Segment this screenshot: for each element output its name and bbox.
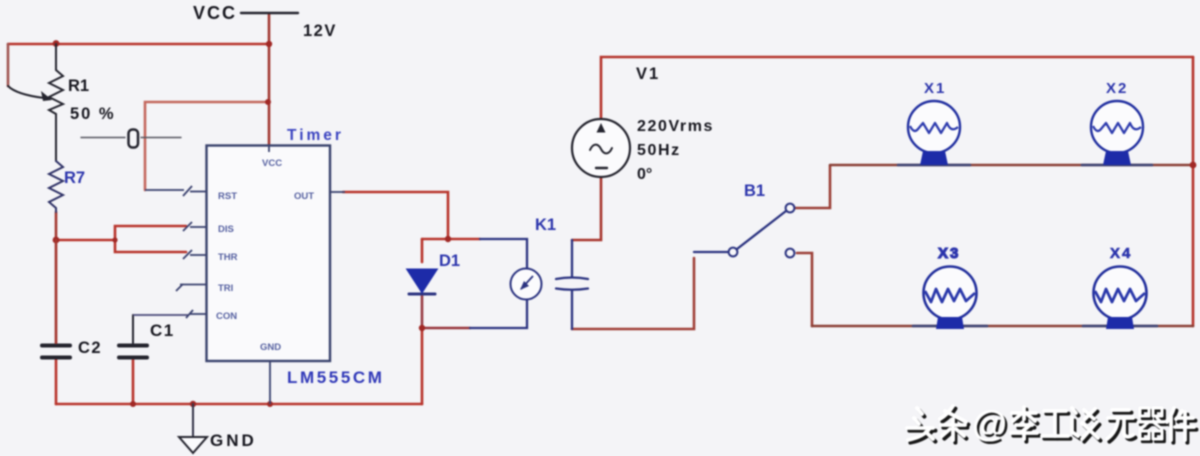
svg-text:CON: CON	[216, 311, 237, 322]
svg-text:VCC: VCC	[262, 158, 282, 169]
svg-text:X3: X3	[938, 245, 960, 262]
svg-text:TRI: TRI	[218, 283, 233, 294]
svg-text:DIS: DIS	[218, 224, 234, 235]
svg-text:B1: B1	[744, 182, 765, 200]
svg-text:X1: X1	[924, 80, 946, 97]
svg-text:D1: D1	[439, 252, 460, 270]
svg-text:C2: C2	[78, 339, 102, 357]
svg-text:VCC: VCC	[193, 3, 237, 23]
svg-text:C1: C1	[150, 321, 175, 340]
svg-text:50Hz: 50Hz	[637, 142, 681, 159]
svg-text:GND: GND	[260, 342, 281, 353]
svg-text:50 %: 50 %	[70, 105, 116, 123]
svg-text:220Vrms: 220Vrms	[637, 118, 714, 135]
svg-text:X4: X4	[1110, 245, 1132, 262]
svg-text:THR: THR	[218, 252, 238, 263]
svg-text:R7: R7	[64, 169, 85, 187]
svg-text:R1: R1	[68, 77, 89, 95]
svg-text:0°: 0°	[637, 166, 652, 183]
svg-text:V1: V1	[636, 65, 660, 83]
svg-text:Timer: Timer	[287, 127, 344, 144]
svg-text:K1: K1	[535, 216, 556, 234]
svg-text:LM555CM: LM555CM	[287, 368, 385, 387]
svg-text:RST: RST	[218, 191, 237, 202]
svg-text:12V: 12V	[303, 22, 337, 40]
svg-text:@: @	[972, 403, 1007, 444]
svg-text:X2: X2	[1106, 80, 1128, 97]
svg-text:GND: GND	[210, 431, 257, 450]
svg-text:OUT: OUT	[294, 191, 314, 202]
